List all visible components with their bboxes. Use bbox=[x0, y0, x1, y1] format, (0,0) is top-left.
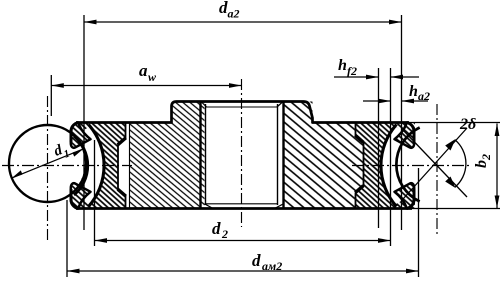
wheel centre left part (sparse hatch) bbox=[130, 102, 205, 209]
rim tip ear, top right bbox=[395, 123, 415, 148]
worm circle d1 (left) bbox=[9, 125, 86, 202]
wheel rim right (dense hatch) bbox=[356, 123, 416, 209]
dimension a_w bbox=[51, 83, 241, 88]
throat arc right bbox=[381, 125, 397, 207]
crescent inner boundary arcs (thick) bbox=[74, 136, 88, 195]
svg-text:h: h bbox=[338, 57, 347, 74]
2-delta arc with arrows bbox=[455, 140, 466, 187]
centre lines bbox=[2, 165, 132, 167]
white crescent clearance right bbox=[381, 127, 411, 204]
worm pocket white left bbox=[10, 126, 85, 201]
bore chamfers top bbox=[201, 102, 207, 108]
svg-text:2δ: 2δ bbox=[459, 116, 476, 133]
worm pocket white right bbox=[396, 128, 422, 202]
svg-text:f2: f2 bbox=[347, 64, 357, 78]
dimension b_2 bbox=[495, 124, 500, 209]
svg-text:a2: a2 bbox=[228, 7, 240, 21]
main outline: top faces, hub, shoulders bbox=[76, 102, 409, 123]
extension lines bbox=[83, 15, 85, 230]
joint rim/centre left bbox=[118, 123, 126, 209]
dimension d_am2 bbox=[67, 269, 419, 274]
svg-text:w: w bbox=[148, 70, 157, 84]
svg-text:a2: a2 bbox=[418, 89, 430, 103]
svg-text:2: 2 bbox=[479, 154, 493, 161]
bottom face bbox=[76, 207, 412, 210]
dimension h_a2 bbox=[363, 99, 428, 104]
rim tip ear, bottom left bbox=[71, 183, 91, 208]
dimension d_2 bbox=[95, 238, 391, 243]
dimension d_a2 bbox=[84, 20, 402, 25]
worm circle arc (right, partial) bbox=[396, 128, 419, 202]
white crescent clearance left bbox=[74, 127, 104, 204]
throat arc left bbox=[89, 125, 105, 207]
bore chamfers bottom bbox=[206, 203, 279, 205]
joint rim/centre right bbox=[356, 123, 364, 209]
b2 extension of faces (thin) bbox=[409, 122, 500, 124]
svg-text:b: b bbox=[473, 160, 490, 168]
svg-text:a: a bbox=[139, 61, 148, 80]
svg-text:2: 2 bbox=[221, 227, 228, 241]
svg-text:h: h bbox=[409, 83, 418, 100]
svg-text:d: d bbox=[252, 251, 261, 270]
dimension h_f2 bbox=[334, 75, 419, 80]
wheel centre right part (sparse hatch) bbox=[284, 102, 364, 209]
rim tip ear, top left bbox=[71, 123, 91, 148]
2-delta angle lines bbox=[403, 130, 467, 197]
svg-text:aм2: aм2 bbox=[262, 259, 282, 273]
bore walls bbox=[199, 102, 201, 209]
wheel rim left (bronze ring, dense hatch) bbox=[74, 123, 126, 209]
svg-text:d: d bbox=[212, 219, 221, 238]
rim tip ear, bottom right bbox=[395, 183, 415, 208]
ear outer edges emphasized bbox=[71, 123, 414, 209]
d1 diameter arrow bbox=[12, 149, 83, 178]
